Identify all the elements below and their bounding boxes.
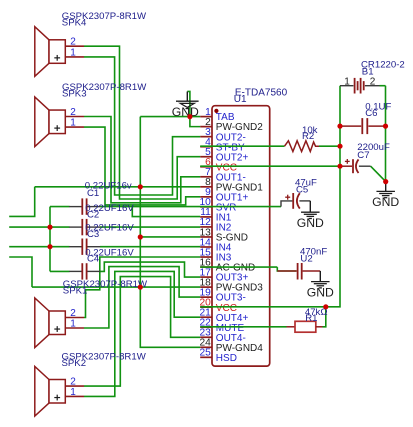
svg-text:C3: C3 bbox=[87, 229, 99, 240]
svg-text:GND: GND bbox=[297, 216, 324, 230]
junction R2 right bbox=[337, 144, 342, 149]
speaker SPK4 bbox=[35, 27, 84, 77]
wire pin18 PW-GND3 row bbox=[32, 286, 200, 288]
wire right rail B1 to GND bbox=[385, 86, 387, 182]
speaker SPK2 bbox=[35, 366, 84, 416]
svg-text:U1: U1 bbox=[234, 94, 247, 105]
U1 pin-1 marker dot bbox=[214, 109, 218, 113]
junction C2 row bbox=[47, 225, 52, 230]
wire SPK4 pin1 to pin3 OUT2- bbox=[84, 57, 200, 195]
SPK3 labels bbox=[62, 82, 147, 100]
capacitor C1 bbox=[69, 198, 100, 214]
U1 pin 11 IN1 bbox=[200, 207, 232, 223]
R2 labels bbox=[302, 125, 318, 142]
wire SPK1 pin2 riser to pin15 IN3 bbox=[84, 257, 200, 318]
U1 pin 2 PW-GND2 bbox=[200, 117, 263, 133]
op-amp U1 E-TDA7560 body bbox=[212, 106, 270, 366]
junction C6 left bbox=[337, 124, 342, 129]
wire GND symbol jog and elbow to pin2 bbox=[187, 91, 200, 126]
wire pin4 ST-BY row to R2 bbox=[200, 145, 284, 147]
svg-text:1: 1 bbox=[70, 47, 76, 58]
speaker SPK1 bbox=[35, 298, 84, 348]
svg-text:1: 1 bbox=[70, 118, 76, 129]
svg-text:SPK2: SPK2 bbox=[62, 358, 87, 369]
wire branch to pin11 IN1 bbox=[132, 207, 200, 217]
C3 labels bbox=[85, 223, 134, 241]
U1 pin 25 HSD bbox=[199, 348, 236, 364]
wire C1 common vertical bbox=[49, 207, 51, 272]
svg-text:1: 1 bbox=[344, 77, 350, 88]
U1 reference labels bbox=[234, 88, 288, 105]
wire SPK1 pin1 riser to pin19 OUT3- bbox=[84, 267, 200, 328]
C1 labels bbox=[85, 181, 132, 199]
svg-text:25: 25 bbox=[199, 348, 211, 359]
junction pin18 row bbox=[138, 285, 143, 290]
U1 pin 8 PW-GND1 bbox=[200, 177, 263, 193]
U1 pin 20 VCC bbox=[199, 297, 236, 313]
svg-text:C7: C7 bbox=[357, 150, 369, 161]
resistor R1 47k box bbox=[287, 321, 323, 332]
battery B1 CR1220-2 bbox=[340, 77, 386, 94]
junction pin8 row bbox=[138, 184, 143, 189]
svg-text:C2: C2 bbox=[87, 210, 99, 221]
svg-text:C1: C1 bbox=[87, 188, 99, 199]
svg-text:1: 1 bbox=[70, 318, 76, 329]
svg-text:GND: GND bbox=[172, 105, 199, 119]
capacitor C4 bbox=[69, 263, 100, 279]
svg-text:U2: U2 bbox=[300, 254, 312, 265]
wire VCC left rail vertical bbox=[326, 86, 340, 307]
svg-text:B1: B1 bbox=[362, 66, 374, 77]
U1 pin 21 OUT4+ bbox=[199, 308, 248, 324]
U1 pin 6 VCC bbox=[200, 157, 237, 173]
U1 pin 9 OUT1+ bbox=[200, 187, 248, 203]
U1 pin 22 MUTE bbox=[199, 318, 244, 334]
wire SPK2 pin1 riser to pin21 OUT4+ bbox=[84, 271, 200, 396]
resistor R2 10k bbox=[285, 141, 320, 152]
capacitor C3 bbox=[69, 239, 100, 255]
wire left loop from pin8 row bbox=[9, 187, 35, 217]
wire pin8 PW-GND1 row bbox=[35, 186, 201, 188]
svg-text:GND: GND bbox=[307, 285, 334, 299]
wire R2 right lead to VCC rail bbox=[319, 145, 340, 147]
wire left loop to pin18 row bbox=[9, 257, 32, 287]
U1 pin 24 PW-GND4 bbox=[199, 338, 263, 354]
wire C4 row jog to pin17 OUT3+ bbox=[50, 270, 70, 272]
U1 pin 4 ST-BY bbox=[200, 137, 245, 153]
U1 pin 23 OUT4- bbox=[199, 328, 245, 344]
ground right under C7 bbox=[372, 182, 399, 210]
U1 pin 15 IN3 bbox=[199, 247, 231, 263]
U1 pin 19 OUT3- bbox=[199, 287, 245, 303]
C7 labels bbox=[357, 142, 390, 161]
C6 labels bbox=[365, 102, 391, 120]
junction C3 row bbox=[47, 244, 52, 249]
junction right GND bbox=[383, 179, 388, 184]
svg-text:SPK4: SPK4 bbox=[62, 18, 87, 29]
junction VCC row bbox=[337, 164, 342, 169]
wire C1 row / SVR net to C5 bbox=[50, 206, 70, 208]
wire pin6 VCC row to rail bbox=[200, 165, 341, 167]
U1 pin 10 SVR bbox=[199, 197, 236, 213]
R1 labels bbox=[305, 307, 328, 324]
svg-text:1: 1 bbox=[70, 387, 76, 398]
SPK1 labels bbox=[63, 279, 148, 297]
wire SPK2 pin2 riser to pin23 OUT4- bbox=[84, 277, 200, 387]
U1 pin 16 AC-GND bbox=[199, 257, 255, 273]
svg-text:SPK1: SPK1 bbox=[63, 286, 88, 297]
svg-text:2: 2 bbox=[370, 77, 376, 88]
wire R1 right lead riser bbox=[323, 307, 326, 327]
svg-text:SPK3: SPK3 bbox=[62, 89, 87, 100]
U1 pin 17 OUT3+ bbox=[199, 267, 248, 283]
capacitor U2 470nF bbox=[277, 263, 320, 280]
capacitor C5 47uF polarized bbox=[281, 193, 310, 209]
svg-text:HSD: HSD bbox=[216, 353, 237, 364]
svg-text:2: 2 bbox=[70, 308, 76, 319]
wire SPK4 pin2 to pin5 OUT2+ bbox=[84, 46, 200, 199]
U1 pin 12 IN2 bbox=[199, 217, 231, 233]
C5 labels bbox=[295, 178, 317, 196]
svg-text:C4: C4 bbox=[87, 254, 100, 265]
U1 pin 7 OUT1- bbox=[200, 167, 246, 183]
capacitor C7 2200uF polarized bbox=[342, 159, 371, 173]
wire C3 row to pin14 IN4 bbox=[9, 246, 69, 248]
wire GND main vertical bbox=[140, 117, 200, 348]
ground top near pin1 bbox=[172, 92, 199, 119]
junction pin13 branch bbox=[138, 234, 143, 239]
junction C6 right bbox=[383, 124, 388, 129]
svg-text:R2: R2 bbox=[302, 131, 314, 142]
U1 pin 5 OUT2+ bbox=[200, 147, 248, 163]
U1 pin 14 IN4 bbox=[199, 237, 231, 253]
wire GND top row to pin1 bbox=[140, 116, 200, 118]
ground under C5 bbox=[297, 201, 324, 230]
B1 labels bbox=[361, 60, 405, 78]
U2 labels bbox=[300, 246, 327, 264]
C4 labels bbox=[85, 247, 134, 264]
SPK2 labels bbox=[62, 351, 147, 369]
capacitor C6 0.1UF bbox=[341, 118, 386, 134]
wire pin20 VCC row bbox=[200, 306, 326, 308]
svg-text:C5: C5 bbox=[296, 185, 308, 196]
wire SPK3 pin2 to pin7 OUT1- bbox=[84, 117, 200, 203]
wire C7 output diagonal to GND bbox=[371, 166, 386, 181]
U1 pin 1 TAB bbox=[200, 107, 235, 123]
U1 pin 13 S-GND bbox=[199, 227, 248, 243]
U1 pin 3 OUT2- bbox=[200, 127, 246, 143]
svg-text:R1: R1 bbox=[305, 313, 317, 324]
junction pin20 VCC bbox=[323, 304, 328, 309]
svg-text:GND: GND bbox=[372, 195, 399, 209]
wire pin16 AC-GND row to U2 bbox=[200, 266, 277, 268]
wire C2 row to pin12 IN2 bbox=[9, 226, 69, 228]
C2 labels bbox=[85, 203, 134, 221]
svg-text:C6: C6 bbox=[365, 108, 377, 119]
junction at GND and pin1 row bbox=[187, 114, 192, 119]
capacitor C2 bbox=[69, 219, 100, 235]
ground under U2 bbox=[307, 271, 334, 299]
SPK4 labels bbox=[62, 11, 147, 29]
U1 pin 18 PW-GND3 bbox=[199, 277, 263, 293]
wire pin13 S-GND branch bbox=[140, 236, 200, 238]
svg-text:2: 2 bbox=[70, 107, 76, 118]
wire SPK3 pin1 to pin9 OUT1+ bbox=[84, 127, 200, 205]
speaker SPK3 bbox=[35, 97, 84, 147]
wire pin22 MUTE row to R1 bbox=[200, 326, 286, 328]
svg-text:2: 2 bbox=[70, 37, 76, 48]
